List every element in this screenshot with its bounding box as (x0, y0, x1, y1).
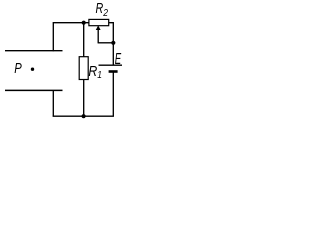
svg-text:1: 1 (97, 69, 102, 81)
label P (14, 59, 22, 76)
label E (115, 49, 122, 67)
wire bottom bus (53, 115, 114, 117)
wire bottom-left terminal (5, 89, 63, 91)
svg-text:2: 2 (102, 7, 108, 18)
svg-text:P: P (14, 59, 22, 76)
node junction dot bottom (82, 114, 86, 118)
label R2 (96, 0, 104, 16)
node P dot (31, 68, 34, 71)
wire wiper stem (97, 29, 99, 43)
wire riser from top terminal to top node (53, 23, 89, 52)
wire battery top lead (112, 43, 114, 65)
label R1 (88, 63, 97, 79)
node junction dot wiper/right (111, 41, 115, 45)
wire battery bottom lead (112, 72, 114, 116)
wire R1 top feed (83, 23, 85, 57)
svg-text:R: R (96, 0, 104, 16)
svg-text:R: R (88, 63, 97, 79)
battery E long plate (99, 64, 123, 66)
wire R2 right terminal down to wiper node (109, 23, 114, 43)
svg-text:E: E (115, 49, 122, 67)
wire top-left terminal (5, 50, 63, 52)
wire drop from bottom terminal (52, 90, 54, 116)
node junction dot top (82, 21, 86, 25)
resistor R2 (89, 19, 109, 25)
wire R1 bottom lead (83, 80, 85, 117)
battery E short plate (109, 70, 118, 73)
resistor R1 (79, 57, 88, 80)
wiper arrow of R2 (96, 25, 101, 30)
wire wiper to right node (98, 42, 114, 44)
